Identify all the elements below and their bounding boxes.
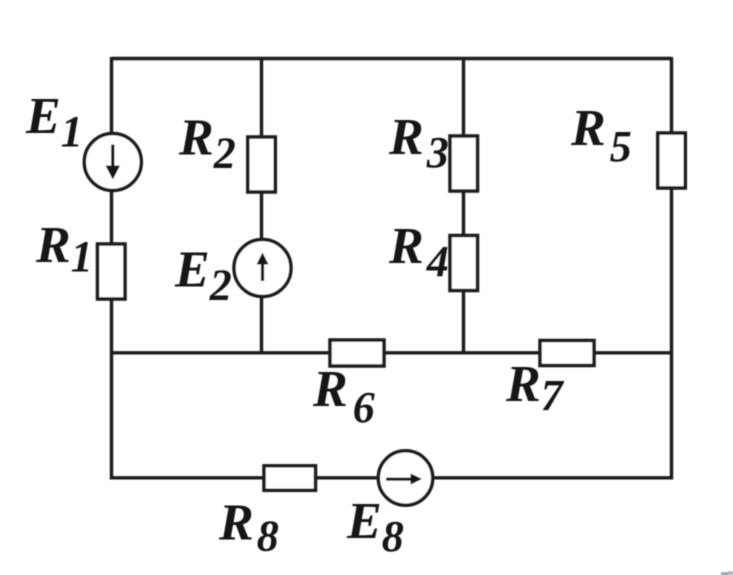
resistor R7 <box>540 341 594 366</box>
resistor R4 <box>450 236 478 291</box>
resistor R2 <box>248 137 275 192</box>
label R5 <box>570 100 632 171</box>
stray scan mark bottom-right corner <box>721 571 733 575</box>
svg-text:R3: R3 <box>388 109 449 177</box>
svg-text:R6: R6 <box>312 361 375 432</box>
source E2 <box>234 240 291 297</box>
label R2 <box>178 110 236 178</box>
wire branch E2/R2 <box>260 57 263 353</box>
label R6 <box>312 361 375 432</box>
resistor R5 <box>658 133 686 188</box>
wire middle bus <box>112 351 672 354</box>
svg-text:E1: E1 <box>25 88 83 156</box>
resistor R6 <box>330 340 384 366</box>
label R1 <box>35 217 93 281</box>
arrow of E1 (down) <box>106 145 121 180</box>
arrow of E2 (up) <box>257 253 269 282</box>
arrow of E8 (right) <box>386 473 422 484</box>
resistor R1 <box>98 244 126 299</box>
svg-text:R4: R4 <box>388 218 449 286</box>
wire top bus <box>112 57 672 60</box>
svg-text:R2: R2 <box>178 110 236 178</box>
svg-text:R1: R1 <box>35 217 93 281</box>
label R8 <box>218 495 279 561</box>
source E8 <box>378 451 432 505</box>
resistor R8 <box>264 466 316 491</box>
label E1 <box>25 88 83 156</box>
label R7 <box>505 356 565 420</box>
label E2 <box>174 242 232 310</box>
wire branch R3/R4 <box>462 57 465 353</box>
label R4 <box>388 218 449 286</box>
source E1 <box>84 134 141 191</box>
svg-text:R5: R5 <box>570 100 632 171</box>
wire bottom bus <box>112 476 672 479</box>
label E8 <box>346 493 404 561</box>
svg-text:E2: E2 <box>174 242 232 310</box>
wire left branch <box>110 57 113 480</box>
resistor R3 <box>450 136 478 191</box>
label R3 <box>388 109 449 177</box>
wire right branch <box>670 57 673 480</box>
svg-text:R8: R8 <box>218 495 279 561</box>
